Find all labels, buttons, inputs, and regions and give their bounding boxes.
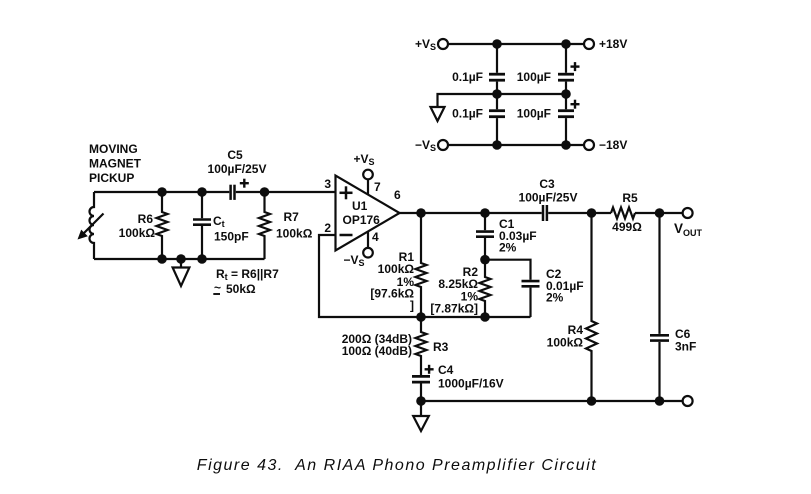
resistor R6 — [157, 192, 168, 259]
resistor R7 — [259, 192, 270, 259]
pin 7 +VS — [367, 179, 369, 194]
capacitor C2 branch — [485, 260, 540, 317]
pin 4 -VS — [367, 232, 369, 248]
svg-text:−VS: −VS — [415, 138, 436, 153]
svg-text:2: 2 — [324, 221, 331, 235]
wire middle supply rail — [438, 94, 567, 107]
wire bottom supply rail — [449, 144, 584, 146]
svg-text:Ct: Ct — [213, 214, 225, 229]
resistor R3 — [416, 317, 427, 375]
svg-text:R5: R5 — [622, 191, 638, 205]
pickup arrow — [82, 214, 104, 236]
terminal ground right — [683, 396, 693, 406]
capacitor C5 — [231, 179, 249, 200]
op-amp plus input mark — [340, 186, 353, 199]
svg-text:100µF: 100µF — [517, 107, 551, 121]
svg-text:100kΩ: 100kΩ — [547, 336, 584, 350]
wire ground rail — [421, 400, 683, 402]
node dots input rail — [157, 187, 167, 197]
node dots pickup bottom — [157, 254, 167, 264]
svg-text:100Ω (40dB): 100Ω (40dB) — [342, 344, 412, 358]
svg-text:2%: 2% — [546, 291, 564, 305]
svg-text:2%: 2% — [499, 241, 517, 255]
terminal -18V — [584, 140, 594, 150]
resistor R5 — [611, 208, 635, 219]
svg-text:VOUT: VOUT — [674, 221, 703, 238]
wire top supply rail — [449, 43, 584, 45]
svg-text:100kΩ: 100kΩ — [119, 226, 156, 240]
svg-text:MOVING: MOVING — [89, 142, 138, 156]
resistor R1 — [416, 213, 427, 317]
capacitor 0.1uF upper — [489, 44, 505, 94]
svg-text:+18V: +18V — [599, 37, 627, 51]
wire input rail — [94, 191, 229, 193]
svg-text:R6: R6 — [138, 212, 154, 226]
wire feedback rail — [421, 316, 485, 318]
capacitor C1 — [476, 213, 494, 260]
svg-text:100kΩ: 100kΩ — [276, 227, 313, 241]
terminal +18V — [584, 39, 594, 49]
svg-text:[97.6kΩ: [97.6kΩ — [370, 287, 414, 301]
ground pickup — [180, 259, 182, 268]
svg-text:7: 7 — [374, 180, 381, 194]
capacitor 100uF lower — [558, 94, 580, 145]
svg-text:OP176: OP176 — [343, 213, 381, 227]
wire feedback loop pin2 — [319, 235, 421, 317]
svg-text:4: 4 — [372, 230, 379, 244]
wire pickup bottom rail — [94, 258, 265, 260]
svg-text:~: ~ — [214, 281, 221, 295]
svg-text:499Ω: 499Ω — [612, 220, 642, 234]
terminal -VS — [438, 140, 448, 150]
svg-text:0.1µF: 0.1µF — [452, 107, 483, 121]
svg-text:[7.87kΩ]: [7.87kΩ] — [430, 302, 478, 316]
svg-text:PICKUP: PICKUP — [89, 171, 134, 185]
svg-text:100µF: 100µF — [517, 70, 551, 84]
svg-text:C4: C4 — [438, 363, 454, 377]
svg-text:MAGNET: MAGNET — [89, 157, 142, 171]
capacitor 100uF upper — [558, 44, 580, 94]
svg-text:1000µF/16V: 1000µF/16V — [438, 377, 504, 391]
resistor R2 — [480, 260, 491, 317]
capacitor C6 — [650, 213, 669, 401]
approx underline — [213, 293, 220, 295]
terminal VOUT — [683, 208, 693, 218]
svg-text:100µF/25V: 100µF/25V — [208, 162, 267, 176]
node dots feedback rail — [480, 255, 490, 265]
svg-text:100µF/25V: 100µF/25V — [519, 191, 578, 205]
svg-text:C3: C3 — [539, 177, 555, 191]
capacitor 0.1uF lower — [489, 94, 505, 145]
capacitor C3 — [543, 205, 547, 221]
svg-text:+VS: +VS — [415, 37, 436, 52]
svg-text:50kΩ: 50kΩ — [226, 282, 256, 296]
svg-text:3: 3 — [324, 177, 331, 191]
svg-text:Rt = R6||R7: Rt = R6||R7 — [216, 267, 279, 282]
op-amp minus input mark — [340, 234, 353, 237]
capacitor Ct — [193, 192, 211, 259]
ground output — [420, 401, 422, 416]
svg-text:R7: R7 — [284, 210, 300, 224]
svg-text:Figure 43. An RIAA Phono Prea: Figure 43. An RIAA Phono Preamplifier Ci… — [197, 457, 597, 474]
svg-text:C5: C5 — [227, 148, 243, 162]
op-amp U1 triangle — [336, 176, 400, 251]
node dots ground rail — [416, 396, 426, 406]
svg-text:100kΩ: 100kΩ — [378, 262, 415, 276]
svg-text:6: 6 — [394, 188, 401, 202]
svg-text:0.1µF: 0.1µF — [452, 70, 483, 84]
svg-text:3nF: 3nF — [675, 340, 696, 354]
node dots output rail — [416, 208, 426, 218]
svg-text:]: ] — [410, 299, 414, 313]
svg-text:U1: U1 — [352, 199, 368, 213]
svg-text:150pF: 150pF — [214, 230, 249, 244]
svg-text:+VS: +VS — [353, 152, 374, 167]
wire output rail — [400, 212, 542, 214]
resistor R4 — [586, 213, 597, 401]
node dots supply rail — [492, 39, 502, 49]
svg-text:R3: R3 — [433, 340, 449, 354]
svg-text:−VS: −VS — [343, 253, 364, 268]
inductor pickup coil — [90, 192, 95, 259]
svg-text:−18V: −18V — [599, 138, 627, 152]
terminal +VS — [438, 39, 448, 49]
capacitor C4 — [412, 365, 434, 401]
ground supply — [431, 107, 445, 121]
